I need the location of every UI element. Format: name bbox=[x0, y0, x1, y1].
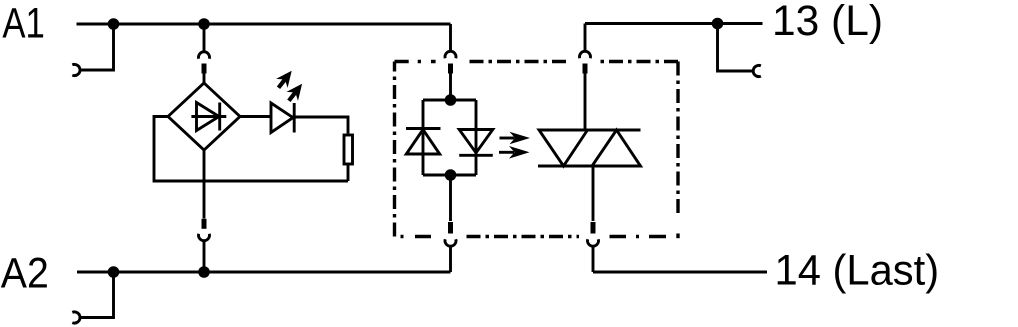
wire LED to resistor bbox=[293, 117, 348, 134]
socket hook A1 stub bbox=[72, 64, 80, 75]
LED emission arrow 2 bbox=[283, 79, 308, 105]
resistor R1 bbox=[344, 135, 353, 164]
left opto diode cathode bar bbox=[406, 127, 441, 130]
wire resistor bottom to rail bbox=[347, 165, 350, 182]
wire plug to bridge top bbox=[203, 73, 206, 85]
plug socket arc (box bottom left) bbox=[445, 239, 456, 246]
bridge diode axis bbox=[191, 115, 226, 118]
LED D1 triangle bbox=[271, 103, 293, 133]
plug pin bar (box bottom left) bbox=[448, 222, 453, 234]
left opto diode triangle (up) bbox=[406, 130, 439, 155]
plug socket arc (box top left) bbox=[445, 51, 456, 58]
right opto diode triangle (down) bbox=[459, 130, 493, 153]
bridge rectifier diamond bbox=[168, 83, 240, 150]
light arrow 2 bbox=[499, 146, 530, 159]
wire socket to A2 wire bbox=[203, 241, 206, 273]
wire 14 (Last) horizontal bbox=[593, 271, 767, 274]
LED pair bottom rail bbox=[423, 174, 476, 177]
triac top lead bbox=[584, 73, 587, 131]
wire bridge left vertex down and bottom rail bbox=[154, 117, 348, 182]
node LED pair bottom bbox=[445, 169, 457, 181]
triac top line bbox=[539, 129, 641, 132]
node on 13L wire bbox=[712, 18, 724, 30]
bridge diode triangle bbox=[197, 103, 220, 131]
wire A2 horizontal bbox=[77, 271, 451, 274]
wire 13 (L) horizontal bbox=[585, 22, 763, 25]
plug socket arc (box top right) bbox=[580, 51, 591, 58]
LED emission arrow 1 bbox=[273, 66, 298, 92]
wire A1 horizontal bbox=[77, 23, 451, 26]
box border top-left dashes bbox=[395, 60, 436, 63]
svg-text:A2: A2 bbox=[1, 250, 49, 298]
svg-text:13 (L): 13 (L) bbox=[772, 0, 883, 45]
socket hook 13L stub bbox=[753, 65, 761, 76]
node on A2 wire (stub branch) bbox=[108, 266, 120, 278]
wire 13L stub branch bbox=[718, 24, 754, 72]
wire A1 to bridge plug bbox=[203, 24, 206, 52]
plug pin bar (A1-bridge) bbox=[202, 64, 207, 74]
plug socket arc (A1-bridge) bbox=[199, 52, 210, 59]
optocoupler box border bottom bbox=[467, 235, 580, 238]
right opto diode cathode bar bbox=[459, 154, 493, 157]
wire A2 stub branch bbox=[80, 272, 114, 318]
optocoupler box border left bbox=[393, 62, 396, 237]
wire A1 down to box plug bbox=[449, 24, 452, 52]
wire socket down to 14 wire bbox=[592, 246, 595, 272]
wire 13L down to box plug bbox=[584, 24, 587, 52]
wire LED pair bottom to box plug bbox=[449, 175, 452, 221]
wire bridge right vertex to LED bbox=[240, 115, 271, 118]
LED D1 cathode bar bbox=[293, 103, 296, 133]
node on A1 wire (stub branch) bbox=[108, 18, 120, 30]
node on A1 wire (bridge branch) bbox=[198, 18, 210, 30]
node LED pair top bbox=[445, 94, 457, 106]
svg-text:14 (Last): 14 (Last) bbox=[775, 246, 940, 294]
box border bottom-right dashes bbox=[610, 235, 667, 238]
wire socket down to A2 wire bbox=[449, 246, 452, 272]
svg-text:A1: A1 bbox=[2, 0, 45, 48]
LED pair left branch (through diode) bbox=[422, 100, 425, 175]
plug pin bar (box top left) bbox=[448, 64, 453, 74]
triac bottom lead bbox=[592, 166, 595, 221]
plug socket arc (box bottom right) bbox=[588, 239, 599, 246]
box border right corner dot bbox=[676, 234, 679, 239]
LED pair right branch (through diode) bbox=[475, 100, 478, 175]
socket hook A2 stub bbox=[72, 312, 80, 323]
wire bridge bottom vertex down bbox=[203, 150, 206, 219]
triac left triangle (down) bbox=[539, 130, 588, 166]
triac bottom line bbox=[538, 165, 642, 168]
optocoupler box border right bbox=[676, 62, 679, 217]
node on A2 wire (bridge branch) bbox=[198, 266, 210, 278]
triac right triangle (up) bbox=[592, 130, 641, 166]
plug socket arc (bridge-A2) bbox=[199, 234, 210, 241]
optocoupler box dash-dot border top bbox=[470, 60, 679, 63]
light arrow 1 bbox=[500, 132, 531, 145]
plug pin bar (box top right) bbox=[583, 64, 588, 74]
wire A1 stub branch bbox=[80, 24, 114, 70]
wire pin to LED pair top node bbox=[449, 73, 452, 101]
plug pin bar (bridge-A2) bbox=[202, 219, 207, 229]
box border bottom-left dashes bbox=[401, 235, 432, 238]
bridge diode cathode bar bbox=[218, 103, 221, 131]
LED pair top rail bbox=[423, 99, 476, 102]
plug pin bar (box bottom right) bbox=[591, 222, 596, 234]
